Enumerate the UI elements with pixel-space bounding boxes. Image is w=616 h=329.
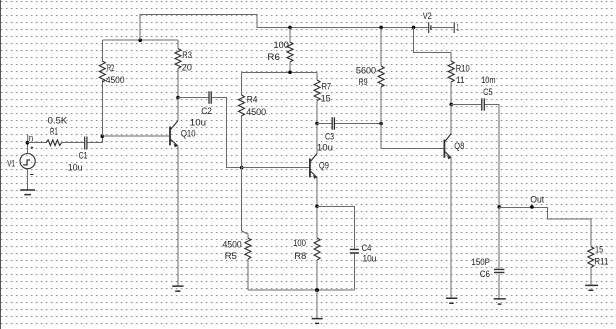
node Q10 collector (176, 96, 180, 100)
node V2 T junction (412, 26, 416, 30)
svg-text:R4: R4 (247, 94, 258, 104)
wire V2 T down to R10 (414, 27, 452, 61)
node bottom ground junction (315, 288, 319, 292)
capacitor C2 10u (190, 91, 212, 127)
svg-text:11: 11 (456, 75, 464, 85)
node In (26, 133, 34, 145)
svg-text:10m: 10m (481, 75, 495, 85)
node R4 bottom junction (240, 166, 244, 170)
wire top rail (140, 14, 428, 40)
node R10 bottom / Q8 collector (449, 103, 453, 107)
wire base node to Q10 (102, 135, 169, 137)
svg-text:10u: 10u (363, 254, 377, 264)
svg-text:Out: Out (530, 195, 544, 205)
wire V1 top lead (26, 143, 28, 154)
node Q9 emitter / R8 top (315, 205, 319, 209)
resistor R6 100 (267, 27, 293, 72)
svg-text:R10: R10 (456, 63, 470, 73)
ground center bottom (312, 319, 323, 324)
svg-text:C2: C2 (201, 106, 212, 116)
node R6 bottom (288, 71, 292, 75)
wire node to C3 (317, 122, 332, 124)
svg-text:4500: 4500 (246, 107, 266, 117)
wire R4 top to R7 top (242, 71, 318, 73)
wire junction to Q9 base (242, 167, 309, 169)
svg-text:Q10: Q10 (181, 129, 196, 139)
svg-text:100: 100 (274, 40, 289, 50)
resistor R8 100 (293, 206, 320, 290)
wire C3 to R9 bottom node (335, 123, 381, 125)
svg-text:4500: 4500 (106, 75, 125, 85)
battery V2 1 (423, 11, 459, 33)
node R9 bottom (379, 122, 383, 126)
svg-text:V1: V1 (7, 159, 15, 169)
resistor R1 0.5K (46, 115, 67, 145)
ground below Q10 (172, 286, 183, 291)
ground below C6 (494, 299, 506, 304)
svg-text:R3: R3 (182, 50, 192, 60)
resistor R11 15 (588, 244, 609, 285)
svg-text:15: 15 (321, 94, 331, 104)
svg-text:1: 1 (457, 23, 460, 33)
wire R1 to C1 (62, 142, 85, 144)
node Out (530, 195, 545, 209)
node R7 bottom / C3 left (315, 122, 319, 126)
svg-text:R11: R11 (594, 256, 608, 266)
wire bottom rail R5 to C4 (248, 289, 355, 291)
node R6 top (288, 26, 292, 30)
svg-text:0.5K: 0.5K (48, 115, 68, 125)
svg-text:150P: 150P (471, 257, 490, 267)
capacitor C5 10m (481, 75, 495, 111)
wire Q10 emitter down (177, 146, 179, 286)
voltage source V1 (7, 146, 35, 174)
capacitor C3 10u (317, 117, 335, 152)
node C5 out junction (497, 205, 501, 209)
node base Q10 junction (101, 134, 105, 138)
svg-text:V2: V2 (423, 11, 432, 21)
resistor R5 4500 (223, 168, 251, 291)
svg-text:5600: 5600 (356, 65, 376, 75)
wire Q8 emitter down (450, 158, 452, 298)
svg-text:Q8: Q8 (454, 141, 464, 151)
wire R9 node to Q8 base (381, 124, 444, 149)
svg-text:Q9: Q9 (319, 160, 329, 170)
svg-text:R2: R2 (107, 63, 115, 73)
svg-text:R8: R8 (294, 251, 306, 261)
svg-text:R1: R1 (50, 126, 58, 136)
ground below Q8 (446, 298, 457, 303)
ground below V1 (20, 190, 35, 195)
transistor Q9 (310, 123, 329, 178)
wire C1 to riser corner (88, 136, 103, 143)
svg-text:15: 15 (595, 244, 603, 254)
wire C2 to Q9 base row (212, 98, 242, 168)
capacitor C4 10u (350, 243, 377, 263)
transistor Q10 (170, 98, 196, 148)
resistor R2 4500 (99, 40, 124, 136)
resistor R9 5600 (356, 27, 384, 123)
wire R2 top to R3 top (102, 39, 178, 41)
svg-text:R6: R6 (267, 52, 280, 62)
svg-text:20: 20 (182, 63, 192, 73)
wire node to C4 top (317, 206, 354, 249)
wire node to C5 (451, 103, 481, 105)
node R9 top (379, 26, 383, 30)
svg-text:10u: 10u (190, 117, 206, 127)
capacitor C6 150P (471, 207, 504, 299)
wire C4 bottom lead (353, 253, 355, 290)
svg-text:10u: 10u (68, 163, 83, 173)
resistor R3 20 (175, 40, 192, 97)
svg-text:R7: R7 (322, 81, 332, 91)
resistor R4 4500 (239, 72, 267, 167)
wire C5 right down to Out row (485, 104, 499, 207)
capacitor C1 10u (68, 137, 88, 173)
svg-text:C1: C1 (79, 151, 88, 161)
svg-text:4500: 4500 (223, 239, 242, 249)
node top-left T (138, 38, 142, 42)
svg-text:10u: 10u (317, 143, 333, 153)
svg-text:C3: C3 (325, 132, 334, 142)
wire Q10 collector to C2 (178, 97, 208, 99)
svg-text:In: In (27, 133, 33, 143)
svg-text:C4: C4 (362, 243, 372, 253)
svg-text:R9: R9 (359, 77, 368, 87)
wire bottom node to ground (316, 290, 318, 319)
resistor R7 15 (314, 72, 331, 123)
wire Q9 emitter down (316, 177, 318, 206)
wire In node to R1 (27, 142, 46, 144)
svg-text:C5: C5 (483, 87, 493, 97)
transistor Q8 (444, 104, 464, 159)
resistor R10 11 (448, 61, 470, 104)
ground below R11 (585, 285, 598, 290)
svg-text:C6: C6 (480, 269, 490, 279)
wire V1 bottom lead (26, 169, 28, 190)
wire out row (499, 207, 591, 246)
svg-text:R5: R5 (225, 251, 237, 261)
svg-text:100: 100 (293, 238, 306, 248)
